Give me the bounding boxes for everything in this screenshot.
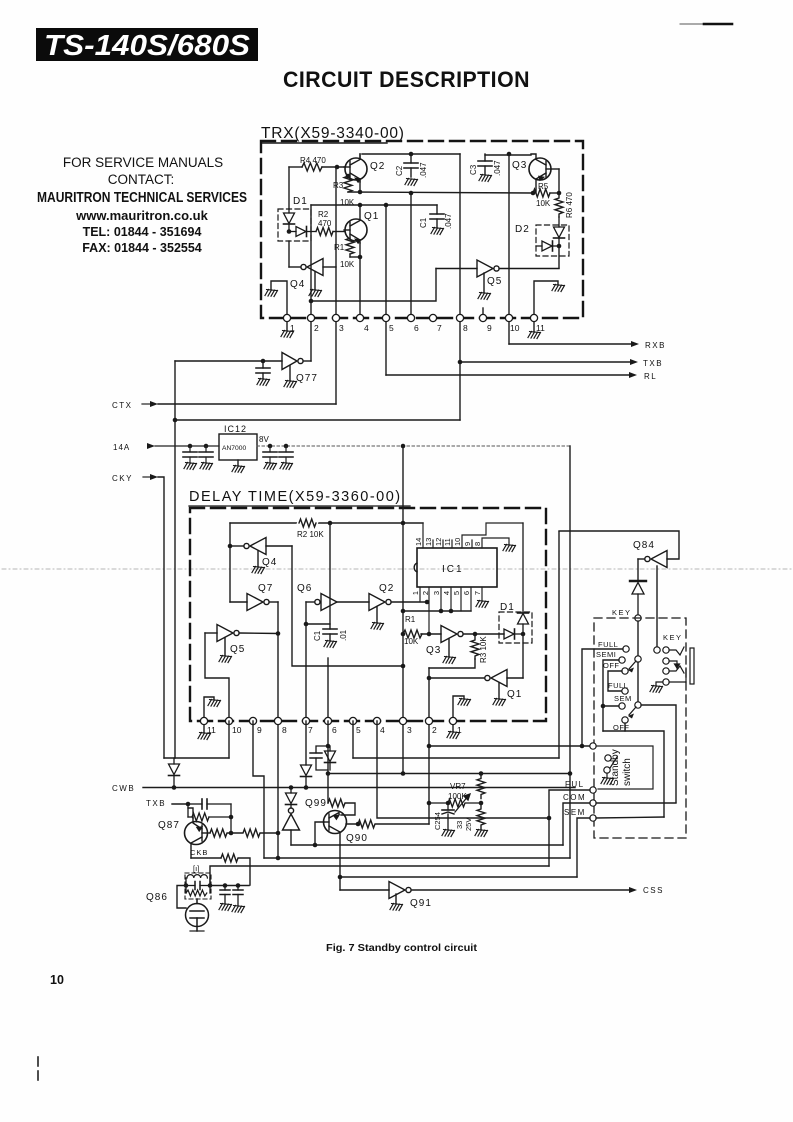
wire pin6 stub bbox=[327, 658, 329, 721]
wire Q5 input jog to y301 rail bbox=[311, 269, 436, 302]
node 8V to delay column bbox=[401, 444, 406, 449]
svg-text:Q2: Q2 bbox=[379, 583, 394, 594]
ground under IC12 bbox=[232, 466, 245, 473]
bypass capacitor 4 at IC12 output bbox=[279, 444, 293, 470]
wire pin5 column x386 (RL) bbox=[385, 205, 387, 375]
IC1 top pin stubs bbox=[423, 523, 523, 548]
wire Q84 feed from delay pin10 net: y531 top rail bbox=[558, 532, 560, 758]
node Q1 output / x429 junction bbox=[427, 676, 432, 681]
svg-text:TS-140S/680S: TS-140S/680S bbox=[44, 30, 251, 62]
svg-text:C254: C254 bbox=[433, 812, 442, 830]
wire D1 node down to Q4 output bbox=[288, 241, 290, 267]
svg-text:Q6: Q6 bbox=[297, 583, 312, 594]
svg-text:CIRCUIT DESCRIPTION: CIRCUIT DESCRIPTION bbox=[283, 67, 530, 92]
ground at pin1 internal bbox=[458, 699, 471, 706]
switch 2 contact OFF bbox=[613, 717, 630, 732]
svg-text:14A: 14A bbox=[113, 443, 130, 452]
wire CKB emitter row bbox=[191, 857, 221, 859]
capacitor C2 .047 bbox=[395, 154, 428, 178]
svg-text:Q1: Q1 bbox=[364, 211, 379, 222]
wire Q2 emitter down bbox=[359, 180, 361, 192]
svg-text:CKY: CKY bbox=[112, 474, 133, 483]
wire 8V column x570 bbox=[569, 446, 571, 858]
svg-text:[ı]: [ı] bbox=[193, 864, 199, 873]
ground at pin11 internal bbox=[208, 700, 221, 707]
svg-text:CWB: CWB bbox=[112, 784, 135, 793]
wire SEM left branch bbox=[577, 818, 590, 877]
svg-text:5: 5 bbox=[356, 725, 361, 735]
svg-text:3: 3 bbox=[339, 323, 344, 333]
wire x289 R4 to D1 bbox=[288, 167, 290, 209]
switch 1 contact SEMI bbox=[596, 650, 625, 663]
potentiometer VR7 bbox=[429, 794, 479, 812]
svg-text:7: 7 bbox=[437, 323, 442, 333]
svg-text:AN7000: AN7000 bbox=[222, 445, 246, 452]
ground in standby switch bbox=[601, 778, 614, 785]
svg-text:33: 33 bbox=[455, 821, 464, 829]
wire rail y523 R2 to IC1 pin14 bbox=[230, 522, 423, 524]
node D1 junction bbox=[287, 229, 292, 234]
node Q3 output / R3 junction bbox=[473, 632, 478, 637]
model title black box TS-140S/680S bbox=[36, 28, 258, 62]
wire pin1 stub up and left bbox=[271, 281, 287, 318]
wire 8V feed column x403 into box bbox=[402, 446, 404, 774]
svg-text:COM: COM bbox=[563, 793, 586, 802]
svg-text:.047: .047 bbox=[493, 160, 502, 176]
wire D2 to Q5 output bbox=[558, 246, 560, 268]
wire y858 bus bbox=[264, 857, 570, 859]
svg-text:1: 1 bbox=[411, 591, 420, 595]
svg-text:D1: D1 bbox=[500, 602, 515, 613]
svg-text:RXB: RXB bbox=[645, 341, 666, 350]
svg-text:10K: 10K bbox=[340, 260, 355, 269]
node pin6 pair top bbox=[326, 744, 331, 749]
wire y877 bus bbox=[340, 876, 577, 878]
node VR7 right x481 bbox=[479, 801, 484, 806]
standby switch contacts and arm bbox=[604, 755, 617, 777]
node TXB / RC bbox=[186, 802, 191, 807]
node Q99 net on CWB bbox=[289, 785, 294, 790]
TRX dashed box bbox=[261, 141, 583, 318]
svg-text:www.mauritron.co.uk: www.mauritron.co.uk bbox=[75, 208, 208, 223]
ground at jack sleeve bbox=[650, 686, 663, 693]
node y666/x403 bbox=[401, 664, 406, 669]
wire collector rail y154 (Q2/C2 to pin8 column) bbox=[362, 153, 460, 155]
svg-text:6: 6 bbox=[462, 591, 471, 595]
signal CKY bbox=[112, 474, 164, 758]
switch 1 contact OFF bbox=[603, 661, 628, 674]
node SEM2 tap on x603 bbox=[601, 704, 606, 709]
switch 1 contact FULL bbox=[598, 640, 629, 652]
inverter Q5 (delay) bbox=[205, 625, 278, 656]
ground under Q77 bbox=[284, 381, 297, 388]
jack terminal small circle bbox=[654, 647, 660, 653]
node Q6 input / pin7 junction bbox=[304, 622, 309, 627]
wire delay pin7 drop bbox=[305, 721, 307, 765]
wire 8V dotted rail bbox=[257, 445, 571, 447]
capacitor C254 33/25V bbox=[433, 803, 473, 831]
wire y611 pins 3-5 bbox=[403, 610, 471, 612]
signal RXB arrow bbox=[509, 341, 666, 350]
svg-text:R2: R2 bbox=[318, 210, 329, 219]
svg-text:2: 2 bbox=[314, 323, 319, 333]
wire emitter rail y192 bbox=[348, 192, 533, 193]
svg-text:SEMI: SEMI bbox=[596, 650, 616, 659]
svg-text:KEY: KEY bbox=[612, 608, 632, 617]
node trap left bbox=[184, 883, 189, 888]
wire x429 column (IC1 pin2 net to bottom) bbox=[428, 668, 430, 824]
wire y774 8V bus bbox=[328, 773, 570, 775]
svg-text:FULL: FULL bbox=[598, 640, 618, 649]
transistor Q1 bbox=[344, 205, 367, 243]
node base junction bbox=[229, 831, 234, 836]
wire OFF1 to FULL2 bbox=[608, 671, 622, 691]
IC1 top pin numbers bbox=[414, 538, 482, 546]
inverter Q99 points up bbox=[283, 808, 300, 845]
wire Q90 emitter column to Q91 bbox=[339, 845, 341, 890]
resistor Q90 right to standby column bbox=[346, 820, 429, 828]
ground at IC1 pin8 bbox=[503, 545, 516, 552]
top right corner printing mark bbox=[680, 23, 732, 25]
wire trap to Q86 bbox=[177, 886, 186, 909]
svg-text:CTX: CTX bbox=[112, 401, 133, 410]
ground under pin11 bbox=[528, 322, 541, 339]
wire standby line y746 bbox=[429, 745, 590, 747]
wire delay pin5 drop bbox=[352, 721, 354, 758]
node R5 left bbox=[531, 191, 536, 196]
svg-text:SEM: SEM bbox=[564, 808, 586, 817]
wire KEY terminal to switch common bbox=[637, 621, 639, 656]
capacitor at Q77 input bbox=[256, 361, 270, 378]
node Q5/Q7 output junction bbox=[276, 631, 281, 636]
svg-text:TRX(X59-3340-00): TRX(X59-3340-00) bbox=[261, 125, 405, 142]
svg-text:R3 10K: R3 10K bbox=[479, 636, 488, 663]
ground under pin1 bbox=[281, 322, 294, 338]
ground under C1 bbox=[431, 228, 444, 235]
wire pin1 internal ground bbox=[453, 696, 464, 721]
node C2 top bbox=[409, 152, 414, 157]
svg-text:.047: .047 bbox=[444, 213, 453, 229]
node y774/x481 bbox=[479, 771, 484, 776]
ground under C1 delay bbox=[324, 641, 337, 648]
ground under Q4 bbox=[309, 290, 322, 297]
wire pin8 column x460 (TXB) bbox=[459, 154, 461, 420]
wire pin11 to ground right of D2 bbox=[534, 281, 558, 318]
capacitor at Q86 row 2 bbox=[233, 886, 243, 906]
svg-text:C1: C1 bbox=[419, 217, 428, 228]
svg-text:3: 3 bbox=[407, 725, 412, 735]
svg-text:10: 10 bbox=[510, 323, 520, 333]
wire pin10 column x509 (RXB) bbox=[508, 154, 510, 344]
switch 1 common and arm bbox=[628, 656, 641, 673]
node y611/x403 bbox=[401, 609, 406, 614]
node pin7 diode on CWB bbox=[304, 785, 309, 790]
svg-text:IC1: IC1 bbox=[442, 564, 464, 575]
svg-text:CSS: CSS bbox=[643, 886, 664, 895]
node R1/emitter junction bbox=[358, 255, 363, 260]
node pin4 on y611 bbox=[449, 609, 454, 614]
node junction R4/Q2 base and pin3 column bbox=[335, 165, 340, 170]
wire y818 to delay pin4 bbox=[377, 721, 549, 818]
ground under delay pin1 bbox=[447, 725, 460, 739]
svg-text:4: 4 bbox=[364, 323, 369, 333]
resistor Q87 base 2 bbox=[231, 829, 278, 837]
node Q2 emitter on rail bbox=[358, 190, 363, 195]
svg-text:R6 470: R6 470 bbox=[565, 192, 574, 218]
ground under Q5 delay bbox=[219, 656, 232, 663]
svg-text:Q3: Q3 bbox=[426, 645, 441, 656]
svg-text:7: 7 bbox=[308, 725, 313, 735]
resistor CKB row bbox=[221, 854, 250, 885]
wire OFF2 stub bbox=[624, 723, 626, 731]
resistor above VR7 right bbox=[477, 774, 485, 799]
wire Q4 input loop x292 down and right bbox=[292, 546, 403, 666]
inverter Q5 (TRX) bbox=[436, 260, 559, 292]
wire Q3 base to R6 column bbox=[558, 169, 560, 193]
wire Q84 input stub down to jack bbox=[656, 566, 658, 647]
svg-text:5: 5 bbox=[452, 591, 461, 595]
resistor Q87 base 1 bbox=[210, 829, 231, 837]
diode of pin6 pair bbox=[325, 746, 336, 770]
ground under Q77 input cap bbox=[257, 379, 270, 386]
diode at Q84 output bbox=[630, 581, 646, 614]
inverter Q91 bbox=[340, 882, 411, 904]
node x175/y420 bbox=[173, 418, 178, 423]
svg-text:R3: R3 bbox=[333, 181, 344, 190]
svg-text:R1: R1 bbox=[405, 615, 416, 624]
node standby/x582 bbox=[580, 744, 585, 749]
svg-text:SEM: SEM bbox=[614, 694, 632, 703]
svg-text:10: 10 bbox=[50, 973, 64, 987]
ground under C2 bbox=[405, 179, 418, 186]
wire pin4 column bbox=[359, 257, 361, 318]
svg-text:VR7: VR7 bbox=[450, 782, 466, 791]
wire y420 from x175 to pin8 column bbox=[175, 419, 460, 421]
svg-text:6: 6 bbox=[332, 725, 337, 735]
TRX connector pins 1-11 bbox=[283, 314, 545, 333]
wire Q2 collector up to rail bbox=[359, 154, 361, 158]
svg-text:DELAY TIME(X59-3360-00): DELAY TIME(X59-3360-00) bbox=[189, 489, 402, 505]
ground under Q1 delay bbox=[493, 699, 506, 706]
wire y866 bus bbox=[210, 866, 549, 886]
signal CWB line bbox=[112, 784, 575, 793]
svg-text:Q2: Q2 bbox=[370, 161, 385, 172]
wire D1 node to Q1 input bbox=[522, 634, 524, 678]
diode D1 vertical element bbox=[284, 209, 295, 231]
wire y845 bus bbox=[291, 844, 563, 846]
svg-text:Q1: Q1 bbox=[507, 689, 522, 700]
ground at IC1 pin7 bbox=[476, 601, 489, 608]
resistor below VR7 right bbox=[477, 803, 485, 829]
inverter Q4 (delay) points left bbox=[230, 538, 292, 567]
ground under Q5 bbox=[478, 293, 491, 300]
terminal FUL bbox=[590, 787, 596, 793]
wire trap right to caps row bbox=[210, 885, 249, 887]
inverter Q1 (delay) points left bbox=[429, 670, 523, 699]
inverter Q77 bbox=[175, 353, 311, 381]
wire Q87 collector to TXB node bbox=[188, 808, 193, 818]
ground left of Q4 bbox=[265, 290, 278, 297]
IC12 regulator AN7000 bbox=[219, 424, 257, 465]
wire R3 bottom to y668 bbox=[429, 659, 475, 668]
svg-text:3: 3 bbox=[432, 591, 441, 595]
svg-text:9: 9 bbox=[487, 323, 492, 333]
svg-text:Q90: Q90 bbox=[346, 833, 368, 844]
svg-text:4: 4 bbox=[442, 591, 451, 595]
terminal COM bbox=[590, 800, 596, 806]
svg-text:5: 5 bbox=[389, 323, 394, 333]
svg-text:CONTACT:: CONTACT: bbox=[108, 172, 175, 187]
svg-text:FAX: 01844 - 352554: FAX: 01844 - 352554 bbox=[82, 241, 202, 255]
svg-text:.01: .01 bbox=[339, 629, 348, 641]
wire pin11 internal ground bbox=[204, 697, 214, 721]
wire FULL1 to x582 bbox=[582, 649, 623, 746]
transistor Q87 bbox=[185, 818, 211, 858]
svg-text:Q84: Q84 bbox=[633, 540, 655, 551]
diode D1 delay vertical element (points up) bbox=[518, 523, 529, 634]
svg-text:Q86: Q86 bbox=[146, 892, 168, 903]
svg-text:C3: C3 bbox=[469, 164, 478, 175]
inverter Q7 bbox=[230, 594, 278, 611]
resistor R3 10K vertical (delay) bbox=[471, 634, 488, 663]
svg-text:.047: .047 bbox=[419, 162, 428, 178]
svg-text:13: 13 bbox=[424, 538, 433, 546]
diode D2 vertical element bbox=[554, 217, 565, 246]
node pin5 rail junction bbox=[384, 203, 389, 208]
node rail/pin10 junction bbox=[507, 152, 512, 157]
transistor Q90 bbox=[324, 811, 347, 846]
ground at cap row 1 bbox=[219, 904, 232, 911]
node y301/pin2 bbox=[309, 299, 314, 304]
wire COM left branch bbox=[563, 803, 590, 845]
resistor Q90 collector (from x328) bbox=[328, 799, 355, 815]
node pin6 emitter rail junction bbox=[409, 191, 414, 196]
wire SEM right branch bbox=[596, 817, 664, 818]
ground under delay pin11 bbox=[198, 725, 211, 740]
node pin3 on y611 bbox=[439, 609, 444, 614]
switch 2 common and arm bbox=[628, 702, 641, 719]
svg-text:6: 6 bbox=[414, 323, 419, 333]
resistor in trap bbox=[186, 890, 207, 896]
capacitor C3 .047 bbox=[469, 154, 502, 176]
node Q1 collector on rail y205 bbox=[358, 203, 363, 208]
resistor R5 10K bbox=[533, 182, 559, 208]
wire COM right branch bbox=[596, 802, 676, 804]
node Q77 input cap junction bbox=[261, 359, 266, 364]
wire SEMI1 to x603 bbox=[603, 660, 619, 731]
ground under right resistor bbox=[475, 830, 488, 837]
diode D1 horizontal element bbox=[289, 227, 316, 237]
svg-text:Q7: Q7 bbox=[258, 583, 273, 594]
signal 14A bbox=[113, 443, 219, 452]
IC1 bottom pin numbers bbox=[411, 591, 482, 595]
label VR7 100K bbox=[448, 782, 467, 801]
svg-text:R2 10K: R2 10K bbox=[297, 530, 324, 539]
svg-text:8V: 8V bbox=[259, 435, 269, 444]
wire FUL left branch bbox=[549, 790, 590, 866]
node VR7 left bbox=[446, 801, 451, 806]
svg-text:Q5: Q5 bbox=[230, 644, 245, 655]
svg-text:4: 4 bbox=[380, 725, 385, 735]
wire Q90 base from bus bbox=[315, 822, 324, 845]
transistor Q2 bbox=[344, 154, 367, 182]
svg-text:TXB: TXB bbox=[146, 799, 166, 808]
node x429/y803 bbox=[427, 801, 432, 806]
IC1 bottom pin stubs bbox=[420, 587, 482, 634]
DELAY connector pins 11-1 bbox=[200, 717, 462, 735]
resistor R6 470 vertical bbox=[555, 192, 574, 218]
svg-text:8: 8 bbox=[282, 725, 287, 735]
wire x230 column bbox=[229, 523, 231, 602]
node D1 delay junction bbox=[521, 632, 526, 637]
DELAY TIME block title bbox=[189, 489, 410, 506]
diode pin7 to CWB bbox=[301, 765, 312, 788]
wire switch1 common to switch2 common bbox=[637, 662, 639, 702]
node R5 right bbox=[557, 191, 562, 196]
inverter Q6 with input bubble bbox=[306, 594, 369, 611]
wire y758 right segment to Q84 column bbox=[353, 757, 559, 759]
ground under Q4 delay bbox=[252, 567, 265, 574]
diode y758 to CWB bbox=[169, 758, 180, 787]
node RC right top bbox=[229, 815, 234, 820]
node R1 left on x403 bbox=[401, 632, 406, 637]
svg-text:11: 11 bbox=[443, 538, 452, 546]
wire rail y205 bbox=[311, 204, 437, 206]
svg-text:10K: 10K bbox=[536, 199, 551, 208]
resistor R3 10K vertical bbox=[333, 176, 355, 207]
svg-text:9: 9 bbox=[257, 725, 262, 735]
ground under C254 bbox=[442, 830, 455, 837]
wire delay pin6 cap/diode pair top bbox=[327, 721, 329, 746]
wire delay pin8 / Q87 column x278 already drawn above; node at bus bbox=[276, 856, 281, 861]
standby switch box bbox=[596, 746, 653, 789]
svg-text:IC12: IC12 bbox=[224, 424, 247, 434]
inductor in trap bbox=[187, 875, 207, 878]
svg-text:2: 2 bbox=[421, 591, 430, 595]
KEY jack contacts and sleeve bbox=[656, 647, 694, 685]
trap network dashed box bbox=[185, 873, 211, 899]
svg-text:25V: 25V bbox=[464, 818, 473, 831]
dashed box key/vox switch assembly bbox=[594, 618, 686, 838]
signal TXB arrow bbox=[460, 359, 663, 368]
svg-text:2: 2 bbox=[432, 725, 437, 735]
wire x330 column R2 to C1 bbox=[329, 523, 331, 629]
node pin6 pair bottom bbox=[326, 771, 331, 776]
node R1/IC1 pin2 junction bbox=[427, 632, 432, 637]
wire Q7 output column x278 down bbox=[277, 602, 279, 858]
bypass capacitor 2 at IC12 bbox=[199, 444, 213, 470]
node R3 top junction bbox=[346, 174, 351, 179]
svg-text:TXB: TXB bbox=[643, 359, 663, 368]
ground under C3 bbox=[479, 175, 492, 182]
terminal KEY on dashed box bbox=[635, 615, 641, 621]
svg-text:Q5: Q5 bbox=[487, 276, 502, 287]
terminal SEM bbox=[590, 815, 596, 821]
left margin registration ticks bbox=[37, 1057, 39, 1080]
node y523/x330 bbox=[328, 521, 333, 526]
node FUL/y818 bbox=[547, 816, 552, 821]
wire delay pin9 drop with jog bbox=[253, 721, 264, 858]
svg-text:8: 8 bbox=[473, 542, 482, 546]
svg-text:C2: C2 bbox=[395, 165, 404, 176]
svg-text:470: 470 bbox=[318, 219, 332, 228]
IC1 package bbox=[414, 548, 497, 587]
node TXB/pin8 junction bbox=[458, 360, 463, 365]
node y774/x403 bbox=[401, 771, 406, 776]
inverter Q84 points left bbox=[638, 551, 667, 568]
diode CWB to Q99 bbox=[286, 788, 297, 809]
svg-text:D2: D2 bbox=[515, 224, 530, 235]
